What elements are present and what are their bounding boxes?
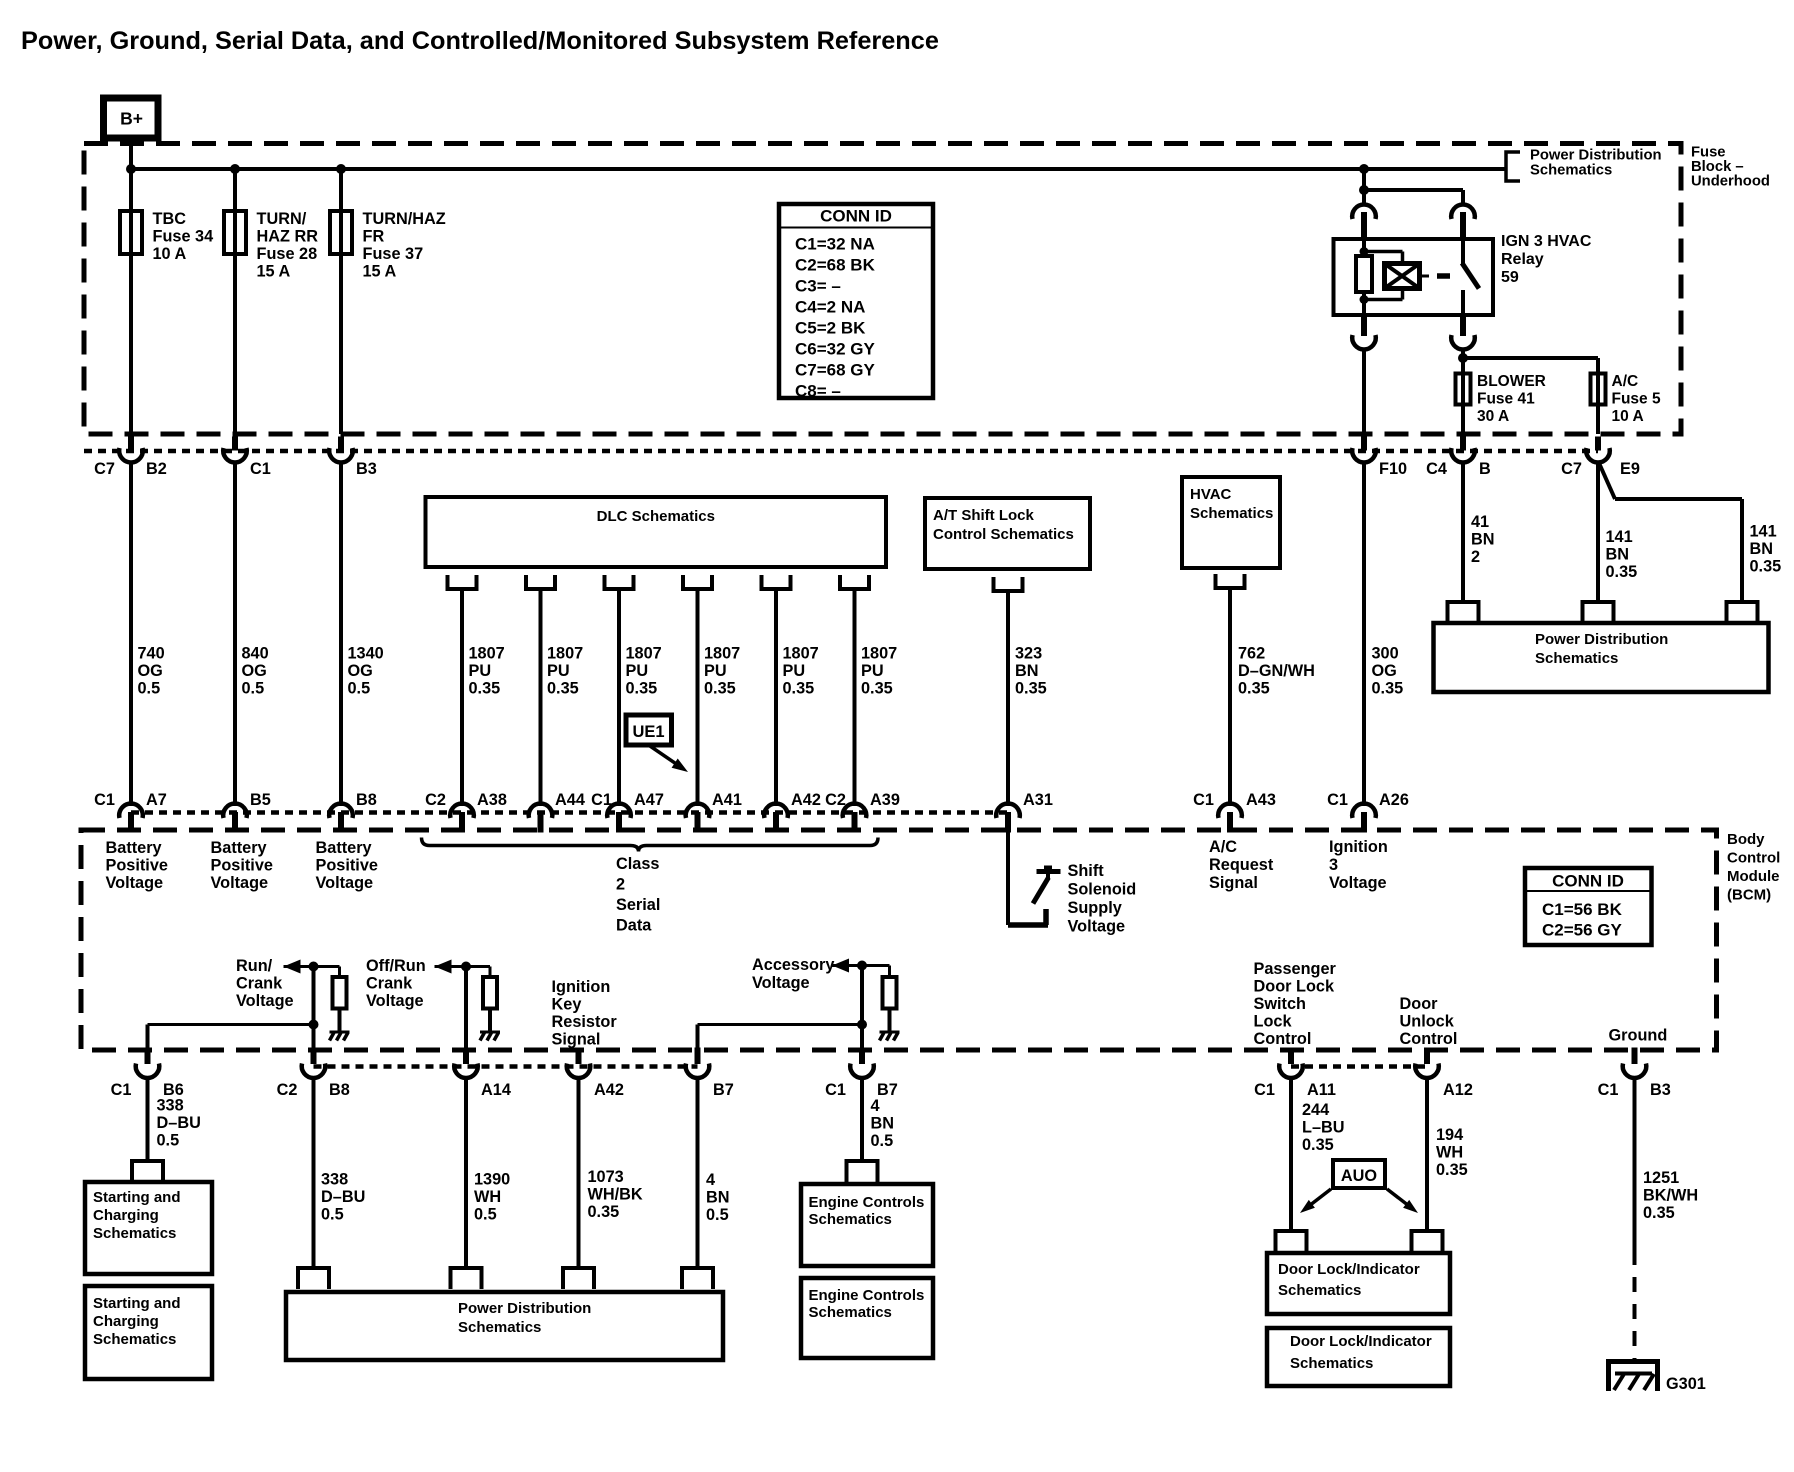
box Starting and Charging Schematics 1 xyxy=(85,1182,212,1274)
connector dome B5 xyxy=(223,804,247,818)
connector cup C1/B3 xyxy=(1623,1064,1647,1078)
svg-text:Run/: Run/ xyxy=(236,957,273,975)
svg-text:2: 2 xyxy=(616,876,625,894)
svg-text:BN: BN xyxy=(871,1115,895,1133)
box HVAC Schematics xyxy=(1182,477,1280,568)
svg-text:C1: C1 xyxy=(825,1081,846,1099)
svg-text:C2: C2 xyxy=(277,1081,298,1099)
svg-text:15 A: 15 A xyxy=(363,263,397,281)
wire relay switch bottom xyxy=(1461,290,1465,315)
wire 338 D-BU (B8) xyxy=(312,1076,316,1268)
svg-text:1807: 1807 xyxy=(469,645,505,663)
wire 1807 PU #6 xyxy=(853,589,857,806)
svg-text:Power Distribution: Power Distribution xyxy=(1530,148,1662,164)
svg-text:Door: Door xyxy=(1400,995,1439,1013)
wire 762 D-GN/WH xyxy=(1228,588,1232,806)
fuse F34 TBC xyxy=(120,211,142,254)
node junction blower/ac split xyxy=(1458,353,1468,363)
connector dome C1/A43 xyxy=(1218,804,1242,818)
connector cup B3 xyxy=(329,448,353,462)
svg-text:1807: 1807 xyxy=(704,645,740,663)
svg-text:1807: 1807 xyxy=(626,645,662,663)
pin C2/A38 xyxy=(459,812,465,833)
box Engine Controls Schematics 2 xyxy=(801,1278,933,1358)
switch shift solenoid xyxy=(1008,922,1048,928)
svg-text:Charging: Charging xyxy=(93,1207,159,1224)
svg-text:Control: Control xyxy=(1254,1030,1312,1048)
svg-text:1390: 1390 xyxy=(474,1171,510,1189)
svg-text:Switch: Switch xyxy=(1254,995,1306,1013)
svg-text:Underhood: Underhood xyxy=(1691,174,1770,190)
svg-text:0.35: 0.35 xyxy=(626,680,658,698)
svg-text:A41: A41 xyxy=(712,791,742,809)
svg-text:Resistor: Resistor xyxy=(552,1013,618,1031)
svg-text:B8: B8 xyxy=(329,1081,350,1099)
svg-text:OG: OG xyxy=(242,662,267,680)
svg-text:Crank: Crank xyxy=(236,975,283,993)
wire run/crank drop xyxy=(312,967,316,1051)
connector dome C2/A39 xyxy=(843,804,867,818)
pin A31 xyxy=(1005,812,1011,833)
resistor relay coil xyxy=(1356,256,1372,292)
wire to resistor 3 xyxy=(888,966,891,978)
svg-text:C2=68 BK: C2=68 BK xyxy=(795,256,876,275)
svg-text:30 A: 30 A xyxy=(1477,408,1509,425)
svg-text:A31: A31 xyxy=(1023,791,1053,809)
box Door Lock/Indicator Schematics 1 xyxy=(1267,1253,1450,1314)
svg-text:Positive: Positive xyxy=(106,857,168,875)
svg-text:Unlock: Unlock xyxy=(1400,1013,1455,1031)
node junction B7 branch xyxy=(857,1020,867,1030)
box A/T Shift Lock Control Schematics xyxy=(925,498,1090,569)
connector dome A44 xyxy=(529,804,553,818)
pin A42b xyxy=(576,1048,582,1065)
connector dome C1/A7 xyxy=(119,804,143,818)
svg-text:A38: A38 xyxy=(477,791,507,809)
svg-text:FR: FR xyxy=(363,228,385,246)
connector dome relay pin right xyxy=(1451,205,1475,219)
svg-text:Supply: Supply xyxy=(1068,899,1122,917)
svg-text:Voltage: Voltage xyxy=(1068,918,1126,936)
wire to resistor 1 xyxy=(338,967,341,978)
svg-text:0.5: 0.5 xyxy=(138,680,161,698)
svg-text:A/C: A/C xyxy=(1612,373,1639,390)
node junction coil top xyxy=(1360,247,1369,256)
svg-text:0.35: 0.35 xyxy=(1238,680,1270,698)
svg-text:1807: 1807 xyxy=(783,645,819,663)
pin C1/B3 xyxy=(1632,1048,1638,1065)
wire F10 feed xyxy=(1362,348,1366,434)
svg-text:C2: C2 xyxy=(425,791,446,809)
svg-text:C1: C1 xyxy=(94,791,115,809)
node junction run/crank xyxy=(309,962,319,972)
svg-text:Voltage: Voltage xyxy=(211,874,269,892)
wire 840 OG xyxy=(233,461,237,806)
svg-text:Signal: Signal xyxy=(1209,874,1258,892)
svg-text:1807: 1807 xyxy=(547,645,583,663)
svg-text:D–GN/WH: D–GN/WH xyxy=(1238,662,1315,680)
svg-text:OG: OG xyxy=(138,662,163,680)
svg-text:41: 41 xyxy=(1471,513,1489,531)
svg-text:C1: C1 xyxy=(250,460,271,478)
svg-text:1073: 1073 xyxy=(588,1168,624,1186)
svg-text:HVAC: HVAC xyxy=(1190,486,1232,503)
connector dome B8 xyxy=(329,804,353,818)
svg-text:15 A: 15 A xyxy=(257,263,291,281)
svg-text:Fuse 37: Fuse 37 xyxy=(363,245,424,263)
connector cup C7/E9 xyxy=(1586,448,1610,462)
pin A12 xyxy=(1424,1048,1430,1065)
wire 1807 PU #1 xyxy=(460,589,464,806)
svg-text:Shift: Shift xyxy=(1068,862,1105,880)
wire 141 BN left xyxy=(1596,461,1600,602)
svg-text:C1=32 NA: C1=32 NA xyxy=(795,235,875,254)
wire relay out right xyxy=(1461,348,1465,374)
stub power dist box right xyxy=(1727,602,1758,623)
svg-text:BN: BN xyxy=(706,1189,730,1207)
stub power dist bottom 3 xyxy=(563,1268,594,1289)
svg-text:C4: C4 xyxy=(1426,460,1447,478)
svg-text:4: 4 xyxy=(706,1171,715,1189)
resistor off/run xyxy=(483,977,497,1009)
svg-text:0.5: 0.5 xyxy=(871,1132,894,1150)
svg-text:C8= –: C8= – xyxy=(795,382,841,401)
svg-text:A42: A42 xyxy=(791,791,821,809)
stub DLC pin 6 xyxy=(840,575,869,589)
arrow AUO left xyxy=(1307,1189,1331,1208)
svg-text:Charging: Charging xyxy=(93,1313,159,1330)
resistor accessory xyxy=(883,977,897,1009)
node junction bus-fuse34 xyxy=(126,164,136,174)
wire 1807 PU #3 xyxy=(617,589,621,806)
fuse F41 BLOWER xyxy=(1456,374,1471,405)
svg-text:141: 141 xyxy=(1750,523,1777,541)
stub DLC pin 4 xyxy=(683,575,712,589)
svg-text:Passenger: Passenger xyxy=(1254,960,1337,978)
svg-text:C7: C7 xyxy=(1561,460,1582,478)
pin C2/A39 xyxy=(852,812,858,833)
stub DLC pin 5 xyxy=(762,575,791,589)
wire coil loop top xyxy=(1364,250,1403,254)
ground run/crank xyxy=(330,1031,350,1034)
stub power dist bottom 1 xyxy=(298,1268,329,1289)
stub door lock box right xyxy=(1412,1231,1443,1253)
connector dome C1/A26 xyxy=(1352,804,1376,818)
svg-text:Engine Controls: Engine Controls xyxy=(809,1194,925,1211)
connector dome A31 xyxy=(996,804,1020,818)
svg-text:A11: A11 xyxy=(1307,1081,1336,1099)
pin B3 xyxy=(338,437,344,451)
switch blade relay xyxy=(1462,263,1479,289)
svg-text:0.35: 0.35 xyxy=(1436,1161,1468,1179)
pin C1/A47 xyxy=(616,812,622,833)
wire B+ bus xyxy=(131,167,1506,171)
svg-text:323: 323 xyxy=(1015,645,1042,663)
svg-text:0.35: 0.35 xyxy=(1015,680,1047,698)
svg-text:Data: Data xyxy=(616,917,652,935)
svg-text:10 A: 10 A xyxy=(1612,408,1644,425)
svg-text:C1: C1 xyxy=(1254,1081,1275,1099)
stub door lock box left xyxy=(1276,1231,1307,1253)
svg-text:C2: C2 xyxy=(825,791,846,809)
table CONN ID (fuse block) xyxy=(779,204,933,398)
svg-text:A42: A42 xyxy=(594,1081,624,1099)
wire 1073 WH/BK xyxy=(577,1076,581,1268)
svg-text:0.5: 0.5 xyxy=(242,680,265,698)
svg-text:Voltage: Voltage xyxy=(1329,874,1387,892)
svg-text:OG: OG xyxy=(348,662,373,680)
arrow run/crank xyxy=(284,960,301,974)
svg-text:141: 141 xyxy=(1606,528,1633,546)
svg-text:Door Lock/Indicator: Door Lock/Indicator xyxy=(1290,1333,1432,1350)
wire resistor1 to gnd xyxy=(338,1009,342,1033)
wire 1251 BK/WH dashed xyxy=(1633,1250,1637,1360)
node junction relay split xyxy=(1359,185,1369,195)
connector cup C1 xyxy=(223,448,247,462)
svg-text:Ignition: Ignition xyxy=(1329,838,1388,856)
svg-text:0.5: 0.5 xyxy=(474,1206,497,1224)
wire fuse34 drop xyxy=(129,169,133,434)
svg-text:F10: F10 xyxy=(1379,460,1407,478)
svg-text:0.35: 0.35 xyxy=(588,1203,620,1221)
brace Class 2 Serial Data xyxy=(422,838,879,852)
svg-text:Schematics: Schematics xyxy=(1278,1282,1361,1299)
pin C1/B7 xyxy=(859,1048,865,1065)
svg-text:Lock: Lock xyxy=(1254,1013,1293,1031)
wire 41 BN xyxy=(1461,461,1465,602)
svg-text:BN: BN xyxy=(1471,531,1495,549)
connector cup A42b xyxy=(567,1064,591,1078)
box Door Lock/Indicator Schematics 2 xyxy=(1267,1328,1450,1386)
svg-text:C5=2 BK: C5=2 BK xyxy=(795,319,866,338)
svg-text:C1: C1 xyxy=(111,1081,132,1099)
svg-text:A/T Shift Lock: A/T Shift Lock xyxy=(933,507,1034,524)
svg-text:PU: PU xyxy=(469,662,492,680)
svg-text:AUO: AUO xyxy=(1341,1167,1377,1185)
pin A41 xyxy=(695,812,701,833)
svg-text:Engine Controls: Engine Controls xyxy=(809,1287,925,1304)
wire 1807 PU #4 xyxy=(696,589,700,806)
svg-text:D–BU: D–BU xyxy=(157,1114,201,1132)
bracket to Power Distribution Schematics xyxy=(1506,152,1520,181)
dotted row B8-B7 xyxy=(314,1064,698,1069)
fuse F5 A/C xyxy=(1591,374,1606,405)
pin F10 xyxy=(1361,437,1367,451)
dash mechanical link xyxy=(1437,273,1450,279)
svg-text:Power Distribution: Power Distribution xyxy=(458,1300,591,1317)
svg-text:B3: B3 xyxy=(356,460,377,478)
stub power dist box left xyxy=(1448,602,1479,623)
node junction accessory xyxy=(857,961,867,971)
svg-text:Schematics: Schematics xyxy=(1535,650,1618,667)
stub HVAC box xyxy=(1216,574,1245,588)
wire 1807 PU #2 xyxy=(539,589,543,806)
arrow off/run xyxy=(435,960,452,974)
svg-text:(BCM): (BCM) xyxy=(1727,887,1771,904)
svg-text:C1: C1 xyxy=(591,791,612,809)
svg-text:WH: WH xyxy=(474,1188,501,1206)
pin relay left xyxy=(1361,212,1367,239)
wire 323 BN xyxy=(1006,591,1010,806)
wire resistor2 to gnd xyxy=(488,1009,492,1033)
pin C4/B xyxy=(1460,437,1466,451)
svg-text:1807: 1807 xyxy=(861,645,897,663)
connector cup B7 xyxy=(686,1064,710,1078)
wire coil loop bottom xyxy=(1401,289,1405,300)
svg-text:338: 338 xyxy=(157,1097,184,1115)
svg-text:A44: A44 xyxy=(555,791,585,809)
svg-text:0.5: 0.5 xyxy=(321,1206,344,1224)
connector cup C1/A11 xyxy=(1279,1064,1303,1078)
svg-text:Starting and: Starting and xyxy=(93,1295,181,1312)
svg-text:338: 338 xyxy=(321,1171,348,1189)
connector cup C1/B7 xyxy=(850,1064,874,1078)
svg-text:OG: OG xyxy=(1372,662,1397,680)
wire off/run drop xyxy=(464,967,468,1051)
resistor run/crank xyxy=(333,977,347,1009)
svg-text:C1: C1 xyxy=(1193,791,1214,809)
wire resistor3 to gnd xyxy=(888,1009,892,1033)
svg-text:IGN 3 HVAC: IGN 3 HVAC xyxy=(1501,233,1592,250)
connector cup A12 xyxy=(1415,1064,1439,1078)
wire off/run xyxy=(435,965,491,968)
dotted connector row (BCM top) xyxy=(131,810,1008,815)
svg-text:Battery: Battery xyxy=(316,839,372,857)
svg-text:L–BU: L–BU xyxy=(1302,1119,1345,1137)
svg-text:Positive: Positive xyxy=(316,857,378,875)
svg-text:Battery: Battery xyxy=(211,839,267,857)
svg-text:B+: B+ xyxy=(120,109,143,129)
svg-text:300: 300 xyxy=(1372,645,1399,663)
wire relay switch top xyxy=(1461,239,1465,264)
svg-text:B5: B5 xyxy=(250,791,271,809)
stub power dist bottom 2 xyxy=(451,1268,482,1289)
node junction bus-fuse28 xyxy=(230,164,240,174)
svg-text:PU: PU xyxy=(626,662,649,680)
connector cup C7/B2 xyxy=(119,448,143,462)
svg-text:0.35: 0.35 xyxy=(1750,558,1782,576)
node B+ terminal box xyxy=(104,98,159,138)
pin C1/A26 xyxy=(1361,812,1367,833)
svg-text:PU: PU xyxy=(704,662,727,680)
svg-text:0.35: 0.35 xyxy=(547,680,579,698)
wire 4 BN (B7) xyxy=(696,1076,700,1268)
svg-text:PU: PU xyxy=(861,662,884,680)
svg-text:Fuse 41: Fuse 41 xyxy=(1477,391,1535,408)
svg-text:4: 4 xyxy=(871,1097,880,1115)
wire 740 OG xyxy=(129,461,133,806)
svg-text:Schematics: Schematics xyxy=(1290,1355,1373,1372)
svg-text:Fuse 34: Fuse 34 xyxy=(153,228,214,246)
svg-text:A/C: A/C xyxy=(1209,838,1237,856)
wire 244 L-BU xyxy=(1289,1076,1293,1231)
svg-text:0.35: 0.35 xyxy=(704,680,736,698)
svg-text:0.35: 0.35 xyxy=(783,680,815,698)
svg-text:C2=56 GY: C2=56 GY xyxy=(1542,921,1623,940)
box Power Distribution Schematics (right) xyxy=(1434,623,1769,692)
wire 338 D-BU (B6) xyxy=(146,1076,150,1161)
wire split to AC fuse xyxy=(1463,356,1598,360)
svg-text:TURN/: TURN/ xyxy=(257,210,307,228)
stub DLC pin 2 xyxy=(526,575,555,589)
svg-text:Schematics: Schematics xyxy=(809,1304,892,1321)
pin B8 xyxy=(338,812,344,833)
svg-text:BLOWER: BLOWER xyxy=(1477,373,1546,390)
wire run/crank xyxy=(284,965,340,968)
pin C1/A43 xyxy=(1227,812,1233,833)
connector cup below relay right xyxy=(1451,335,1475,349)
stub DLC pin 3 xyxy=(605,575,634,589)
svg-text:Solenoid: Solenoid xyxy=(1068,881,1137,899)
box Power Distribution Schematics (bottom) xyxy=(286,1292,723,1360)
connector dome A41 xyxy=(686,804,710,818)
svg-text:PU: PU xyxy=(547,662,570,680)
wire bus to relay split xyxy=(1362,169,1366,190)
svg-text:Control: Control xyxy=(1400,1030,1458,1048)
svg-text:G301: G301 xyxy=(1666,1375,1706,1393)
svg-text:Schematics: Schematics xyxy=(93,1331,176,1348)
svg-text:BN: BN xyxy=(1015,662,1039,680)
svg-text:Power, Ground, Serial Data, an: Power, Ground, Serial Data, and Controll… xyxy=(21,27,939,55)
wire fuse37 drop xyxy=(339,169,343,434)
fuse F28 TURN/HAZ RR xyxy=(224,211,246,254)
svg-text:Control Schematics: Control Schematics xyxy=(933,526,1074,543)
connector dome A42 xyxy=(764,804,788,818)
wire relay split horizontal xyxy=(1364,188,1463,192)
svg-text:C1: C1 xyxy=(1598,1081,1619,1099)
svg-text:CONN ID: CONN ID xyxy=(1552,872,1624,891)
connector cup A14 xyxy=(454,1064,478,1078)
svg-text:A7: A7 xyxy=(146,791,167,809)
box Engine Controls Schematics 1 xyxy=(801,1184,933,1266)
svg-text:Door Lock/Indicator: Door Lock/Indicator xyxy=(1278,1261,1420,1278)
svg-text:0.35: 0.35 xyxy=(1643,1204,1675,1222)
svg-text:0.35: 0.35 xyxy=(1372,680,1404,698)
table CONN ID (BCM) xyxy=(1525,868,1652,945)
pin C7/B2 xyxy=(128,437,134,451)
svg-text:Crank: Crank xyxy=(366,975,413,993)
connector cup C1/B6 xyxy=(136,1064,160,1078)
svg-text:B2: B2 xyxy=(146,460,167,478)
wire ac to edge xyxy=(1596,405,1600,435)
svg-text:BN: BN xyxy=(1606,546,1630,564)
node junction bus-fuse37 xyxy=(336,164,346,174)
connector dome C2/A38 xyxy=(450,804,474,818)
svg-text:A39: A39 xyxy=(870,791,900,809)
wire relay pin30 drop xyxy=(1362,190,1366,206)
wire fuse28 drop xyxy=(233,169,237,434)
svg-text:Request: Request xyxy=(1209,856,1274,874)
svg-text:Serial: Serial xyxy=(616,896,660,914)
svg-text:A26: A26 xyxy=(1379,791,1409,809)
box DLC Schematics xyxy=(426,497,887,567)
wire 1340 OG xyxy=(339,461,343,806)
ground off/run xyxy=(480,1031,500,1034)
pin C1 xyxy=(232,437,238,451)
pin C7/E9 xyxy=(1595,437,1601,451)
dotted connector row (fuse block bottom) xyxy=(84,449,1598,454)
svg-text:Schematics: Schematics xyxy=(809,1211,892,1228)
svg-text:Voltage: Voltage xyxy=(752,974,810,992)
svg-text:B8: B8 xyxy=(356,791,377,809)
svg-text:C7=68 GY: C7=68 GY xyxy=(795,361,876,380)
pin A42 xyxy=(773,812,779,833)
connector cup C4/B xyxy=(1451,448,1475,462)
fuse F37 TURN/HAZ FR xyxy=(330,211,352,254)
wire accessory xyxy=(832,964,890,967)
svg-text:D–BU: D–BU xyxy=(321,1188,365,1206)
pin C1/A7 xyxy=(128,812,134,833)
